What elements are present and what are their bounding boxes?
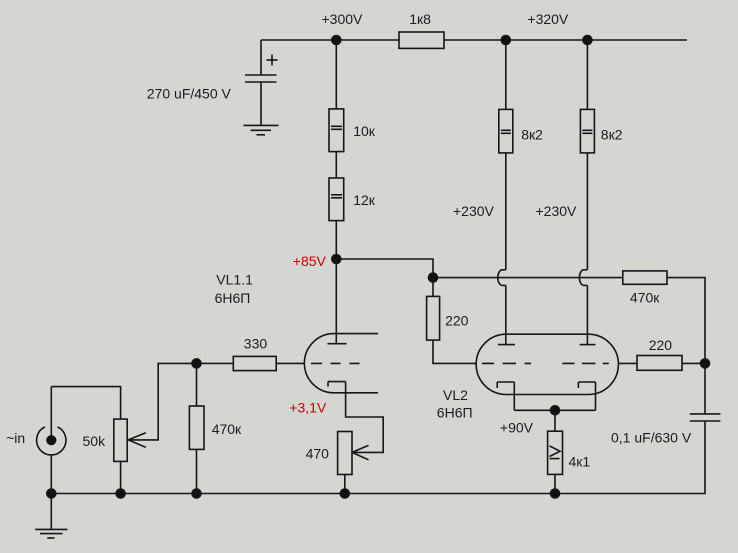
wire node to 330 bbox=[197, 362, 234, 364]
capacitor C1 plus sign bbox=[267, 55, 278, 66]
svg-text:+300V: +300V bbox=[322, 11, 364, 27]
svg-text:1к8: 1к8 bbox=[409, 11, 431, 27]
svg-text:330: 330 bbox=[244, 336, 268, 352]
resistor 12к bbox=[329, 178, 344, 221]
svg-text:220: 220 bbox=[445, 313, 469, 329]
wire left anode branch with hop bbox=[498, 153, 506, 345]
tube VL1.1 anode bar bbox=[328, 343, 347, 345]
pot 470 wiper arrow bbox=[352, 445, 369, 459]
svg-text:VL2: VL2 bbox=[443, 387, 468, 403]
wire 470к to right vertical bbox=[667, 278, 705, 364]
resistor 4к1 bbox=[548, 431, 563, 474]
svg-text:0,1 uF/630 V: 0,1 uF/630 V bbox=[611, 430, 692, 446]
wire input jack vertical bbox=[50, 387, 52, 440]
svg-text:4к1: 4к1 bbox=[569, 454, 591, 470]
potentiometer 50k bbox=[114, 419, 127, 461]
resistor 8к2 right bbox=[580, 109, 594, 152]
pot 50k wiper arrow bbox=[128, 433, 146, 448]
svg-text:470к: 470к bbox=[212, 421, 242, 437]
node 470 pot bottom bbox=[340, 489, 349, 498]
resistor 1к8 bbox=[399, 32, 444, 48]
wire cathode node to 4к1 bbox=[554, 410, 556, 431]
wire +85V node to 220 branch bbox=[336, 259, 433, 278]
node cathode junction bbox=[551, 406, 560, 415]
wire top rail left bbox=[261, 39, 399, 41]
wire left anode branch upper bbox=[505, 40, 507, 109]
node 50k bottom bbox=[116, 489, 125, 498]
node output junction bbox=[701, 359, 710, 368]
svg-text:6Н6П: 6Н6П bbox=[215, 290, 251, 306]
node 470к bottom bbox=[192, 489, 201, 498]
wire VL1.1 cathode to 470 pot wiper bbox=[346, 382, 384, 453]
ground under C1 bbox=[244, 125, 279, 134]
capacitor 0,1uF plates bbox=[690, 414, 721, 421]
svg-text:6Н6П: 6Н6П bbox=[437, 404, 473, 420]
tube VL2 envelope bbox=[476, 334, 618, 394]
wire 12к to +85V node bbox=[335, 221, 337, 259]
tube VL2 anode bars bbox=[498, 344, 596, 346]
resistor 470к vertical bbox=[189, 406, 204, 449]
svg-text:10к: 10к bbox=[353, 123, 376, 139]
wire capacitor to bottom rail bbox=[51, 421, 705, 494]
svg-text:220: 220 bbox=[649, 337, 673, 353]
resistor 220 output bbox=[637, 356, 682, 371]
wire 470 pot to bottom rail bbox=[344, 475, 346, 494]
node top rail right anode branch bbox=[583, 36, 592, 45]
wire output node to capacitor bbox=[704, 363, 706, 414]
svg-text:+230V: +230V bbox=[536, 203, 578, 219]
svg-text:+230V: +230V bbox=[453, 203, 495, 219]
potentiometer 470 bbox=[338, 432, 352, 475]
tube VL2 grid dashed lines bbox=[482, 362, 609, 364]
node 220/grid junction bbox=[429, 273, 438, 282]
node input ground junction bbox=[47, 489, 56, 498]
wire node to 220 resistor bbox=[432, 278, 434, 297]
svg-text:50k: 50k bbox=[83, 433, 107, 449]
node grid junction bbox=[192, 359, 201, 368]
tube VL2 cathodes bbox=[497, 382, 595, 388]
wire 220 to VL2 left grid bbox=[433, 340, 476, 363]
svg-text:+85V: +85V bbox=[293, 253, 327, 269]
wire 220 to output node bbox=[682, 362, 705, 364]
tube VL1.1 cathode bbox=[328, 382, 346, 387]
resistor 10к bbox=[329, 109, 344, 152]
svg-text:+3,1V: +3,1V bbox=[289, 400, 327, 416]
resistor 330 bbox=[233, 356, 276, 370]
svg-text:+320V: +320V bbox=[527, 11, 569, 27]
svg-text:12к: 12к bbox=[353, 192, 376, 208]
svg-text:8к2: 8к2 bbox=[521, 127, 543, 143]
wire right anode branch with hop bbox=[579, 153, 587, 345]
capacitor C1 270uF plates bbox=[245, 75, 277, 82]
svg-text:VL1.1: VL1.1 bbox=[216, 272, 253, 288]
wire 470к to bottom rail bbox=[196, 449, 198, 493]
wire 330 to VL1.1 grid bbox=[276, 362, 304, 364]
wire 50k wiper to grid node bbox=[128, 363, 196, 440]
resistor 470к horizontal bbox=[623, 271, 667, 284]
wire input jack bottom lead bbox=[50, 455, 52, 494]
svg-text:+90V: +90V bbox=[500, 419, 534, 435]
node 4к1 bottom bbox=[551, 489, 560, 498]
svg-text:270 uF/450 V: 270 uF/450 V bbox=[147, 86, 232, 102]
resistor 220 (VL2 left grid) bbox=[427, 296, 440, 340]
wire top rail right bbox=[444, 39, 687, 41]
node top rail left anode branch bbox=[501, 36, 510, 45]
node +85V bbox=[332, 255, 341, 264]
svg-text:~in: ~in bbox=[6, 430, 25, 446]
svg-text:8к2: 8к2 bbox=[601, 127, 623, 143]
wire jack to 50k pot bbox=[51, 387, 120, 420]
connector input jack bbox=[37, 427, 66, 455]
wire 50k pot to bottom rail bbox=[120, 461, 122, 493]
node +300V junction bbox=[332, 36, 341, 45]
ground bottom left bbox=[35, 529, 67, 538]
svg-text:470к: 470к bbox=[630, 290, 660, 306]
wire feedback line to 470к bbox=[438, 277, 623, 279]
wire capacitor C1 top lead bbox=[260, 40, 262, 75]
wire node to 470к bbox=[196, 363, 198, 406]
svg-text:470: 470 bbox=[306, 446, 330, 462]
wire rail to R 10к bbox=[335, 40, 337, 109]
wire VL1.1 anode lead bbox=[335, 259, 337, 344]
wire between 10к and 12к bbox=[335, 152, 337, 178]
tube VL1.1 grid dashed line bbox=[311, 362, 360, 364]
wire VL2 cathodes to common node bbox=[514, 382, 595, 410]
resistor 8к2 left bbox=[499, 109, 513, 152]
tube VL1.1 envelope bbox=[304, 334, 378, 393]
wire capacitor C1 bottom lead bbox=[260, 82, 262, 125]
wire right anode branch upper bbox=[586, 40, 588, 109]
wire 4к1 to bottom rail bbox=[554, 474, 556, 493]
wire ground lead bottom left bbox=[50, 494, 52, 530]
wire VL2 right grid to 220 bbox=[619, 362, 637, 364]
